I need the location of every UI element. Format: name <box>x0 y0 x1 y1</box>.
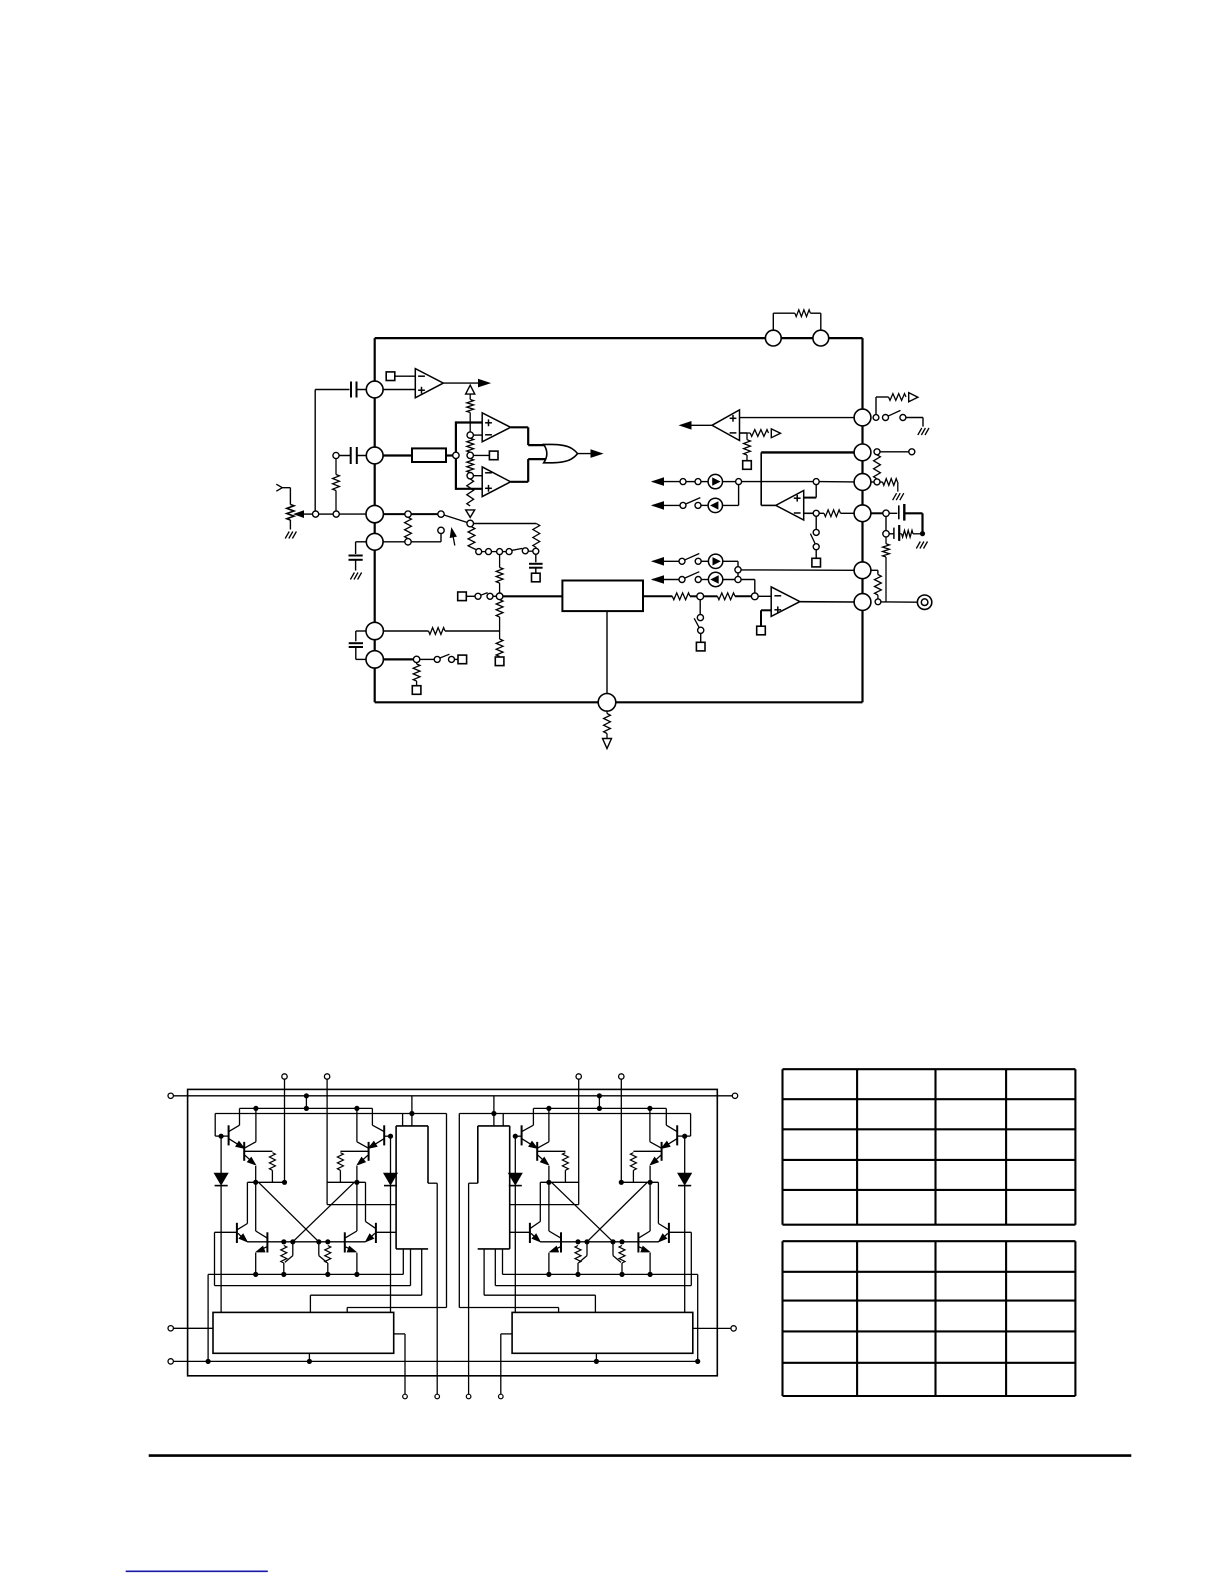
link drop to Q6 <box>246 1182 248 1223</box>
small open arrow right <box>771 429 780 438</box>
switch circle <box>475 593 481 599</box>
junction dot <box>920 531 925 536</box>
left rail terminal <box>168 1093 173 1098</box>
left IC pin 6 <box>366 651 383 668</box>
U3 output to OR gate <box>511 426 529 428</box>
audio output line <box>881 601 918 603</box>
diode D2 (right) <box>390 1136 392 1173</box>
pin R2 wire to U6 output <box>761 451 854 453</box>
transistor Q6 <box>236 1223 238 1243</box>
wire terminal b to driver block <box>510 1204 579 1206</box>
divider node circle b <box>467 452 473 458</box>
emitter bus <box>503 1273 698 1275</box>
heavy input bus of comparators <box>456 421 482 423</box>
wire terminal b to driver block <box>327 1204 396 1206</box>
terminal square osc in <box>458 592 467 601</box>
bus3 <box>484 1294 595 1296</box>
OR output arrow <box>578 453 598 455</box>
diode D1 (left) <box>684 1136 686 1173</box>
switch circle <box>487 593 493 599</box>
resistor left leg of coil <box>468 527 475 548</box>
switch blade <box>889 410 901 416</box>
series resistor 2 <box>717 593 735 600</box>
switch blade to VCO node <box>444 515 467 523</box>
bottom pin circle <box>598 694 616 712</box>
emitter resistor Rd <box>575 1246 581 1264</box>
rail line4 <box>459 1113 690 1115</box>
transistor Q4 <box>383 1125 385 1145</box>
bottom bus segment <box>208 1360 453 1362</box>
resistor bridging top pins <box>772 313 774 330</box>
resistor down from U2 - <box>746 433 748 440</box>
tuning pot / antenna input <box>276 484 290 491</box>
route from line4 to bias block <box>459 1307 558 1309</box>
emitter resistor Rc <box>281 1246 287 1264</box>
divider node circle c <box>467 473 473 479</box>
resistor Rb <box>537 1150 565 1152</box>
parallel lead <box>586 1242 588 1256</box>
left mid terminal <box>168 1326 173 1331</box>
wire pin5 row <box>383 630 428 632</box>
ceramic resonator box at pin 2 <box>383 454 412 456</box>
emitter bus <box>208 1273 403 1275</box>
pin R2 right branch <box>874 449 880 455</box>
cap in RC <box>893 528 895 539</box>
top terminal a <box>282 1074 287 1079</box>
transistor Q5 <box>266 1232 268 1252</box>
feed to driver block <box>409 1111 414 1116</box>
left multiplier cell <box>206 1074 453 1395</box>
pin function table (upper) <box>783 1068 1076 1070</box>
emitter link <box>621 1181 658 1183</box>
resistor below bottom pin <box>606 711 608 713</box>
row C node circle <box>735 567 741 573</box>
supply arrow (open triangle up) <box>466 385 475 394</box>
resistor right of VCO <box>533 524 540 548</box>
bottom terminal 3 <box>466 1394 471 1399</box>
bottom bus segment <box>453 1360 698 1362</box>
resistor osc node down <box>496 600 503 617</box>
equivalent circuit outer rectangle <box>188 1089 718 1375</box>
U6 + input wire <box>804 497 817 499</box>
wire from C1 down to input node <box>314 390 316 512</box>
node circle on comparator bus <box>453 452 459 458</box>
top terminal b <box>324 1074 329 1079</box>
node circle <box>333 511 339 517</box>
ground <box>893 493 897 500</box>
mute switch below U6 <box>815 516 817 529</box>
transistor Q7 <box>344 1232 346 1252</box>
switch blade <box>481 593 488 596</box>
transistor Q8 <box>375 1223 377 1243</box>
row A node circle <box>736 479 742 485</box>
footer link underline <box>126 1570 268 1572</box>
cross-couple diagonal 2 <box>293 1182 355 1242</box>
U5 output to pin R6 <box>800 601 854 603</box>
resistor to osc node <box>496 568 503 584</box>
right IC pin R6 <box>854 594 871 611</box>
emitter column Q3-Q7 <box>548 1166 550 1231</box>
wire to pin R5 <box>741 569 854 571</box>
divider node circle a <box>467 432 473 438</box>
emitter column Q2-Q5 <box>255 1166 257 1231</box>
block to bottom terminal wire <box>428 1182 437 1184</box>
switch blade row D <box>685 572 699 578</box>
base row of lower pairs <box>247 1241 365 1243</box>
ground <box>918 428 922 435</box>
current source CS-C <box>708 554 722 568</box>
pin 5-6 capacitor <box>356 630 366 632</box>
right multiplier cell (mirrored) <box>453 1074 700 1395</box>
collector rail line3 <box>240 1107 373 1109</box>
bias block ground stub <box>308 1353 310 1361</box>
current source row D <box>653 576 664 583</box>
current source row C <box>653 558 664 565</box>
link drop to Q6 <box>657 1182 659 1223</box>
wire <box>173 1360 208 1362</box>
U5 + input to square <box>761 609 771 611</box>
wire <box>693 1327 731 1329</box>
IC boundary rectangle (application circuit) <box>375 337 863 339</box>
rail line4 <box>215 1113 446 1115</box>
transistor Q1 <box>228 1125 230 1145</box>
resistor below pin6 node <box>416 663 418 664</box>
node circle rows C-D <box>735 576 741 582</box>
terminal square <box>696 642 705 651</box>
current source row A <box>653 478 664 485</box>
terminal square at A1 inverting input <box>386 372 395 381</box>
audio op-amp U5 <box>771 587 800 617</box>
current source CS-B <box>708 498 722 512</box>
bottom terminal 1 wire <box>394 1333 405 1335</box>
route from line4 to bias block <box>347 1307 446 1309</box>
node circle <box>313 511 319 517</box>
transistor Q2 <box>661 1142 663 1161</box>
wire <box>319 513 333 515</box>
pin 6 row switch to terminal <box>383 658 413 660</box>
right IC pin R1 <box>854 409 871 426</box>
driver block tall rectangle <box>396 1125 428 1127</box>
wire to pin 3 <box>339 513 366 515</box>
bias block wide rectangle <box>213 1312 394 1353</box>
bus risers from block <box>502 1249 504 1275</box>
parallel lead <box>612 1242 614 1256</box>
terminal square <box>458 655 467 664</box>
emitter column Q3-Q7 <box>356 1166 358 1231</box>
parallel lead <box>318 1242 320 1256</box>
bottom terminal 4 <box>499 1394 504 1399</box>
divider resistor 4 <box>467 479 474 506</box>
wire VCO node right <box>474 523 537 525</box>
bottom terminal 2 <box>435 1394 440 1399</box>
pin R4 deemphasis network <box>871 512 883 514</box>
transistor Q4 <box>521 1125 523 1145</box>
osc node circle <box>496 593 503 600</box>
transistor Q6 <box>668 1223 670 1243</box>
top pin T1 <box>765 330 781 346</box>
driver block tall rectangle <box>478 1125 510 1127</box>
U2 - feedback network <box>740 432 748 434</box>
top terminal b <box>576 1074 581 1079</box>
left IC pin 4 <box>366 533 383 550</box>
node circle <box>883 531 889 537</box>
terminal square <box>743 461 752 470</box>
transistor Q5 <box>637 1232 639 1252</box>
diode D1 (left) <box>220 1136 222 1173</box>
row A tap circle <box>813 479 819 485</box>
node circle on output line <box>875 599 881 605</box>
emitter link right <box>327 1181 365 1183</box>
feed to driver block <box>491 1111 496 1116</box>
bottom terminal 1 wire <box>501 1333 512 1335</box>
bus2 <box>215 1285 411 1287</box>
wire to U4 - input <box>473 475 482 477</box>
resistor Rb <box>340 1150 368 1152</box>
feedback resistor R2-R3 <box>874 455 881 479</box>
parallel lead <box>292 1242 294 1256</box>
divider resistor 3 <box>467 459 474 473</box>
pin3 row to band switch <box>383 513 405 515</box>
resistor in pin5 row <box>429 628 446 635</box>
transistor Q7 <box>560 1232 562 1252</box>
trimmer capacitor under coil right <box>535 554 537 562</box>
terminal square <box>412 686 421 695</box>
wire to U3 - input <box>473 434 482 436</box>
capacitor plates <box>898 505 900 519</box>
small open arrow right <box>909 393 918 402</box>
heavy wire osc node to IF block <box>503 595 563 597</box>
resistor down to audio out line <box>885 537 887 544</box>
bus3 <box>310 1294 421 1296</box>
emitter link <box>247 1181 284 1183</box>
bus2 <box>495 1285 691 1287</box>
top terminal a <box>619 1074 624 1079</box>
terminal square <box>812 558 821 567</box>
transistor Q2 <box>243 1142 245 1161</box>
ground <box>350 573 354 580</box>
wire coil center down <box>499 555 501 568</box>
right IC pin R3 <box>854 474 871 491</box>
resistor from C2 node down <box>335 459 337 475</box>
current source CS-A <box>708 474 722 488</box>
diode D2 (right) <box>514 1136 516 1173</box>
switch blade row B <box>686 498 700 504</box>
base row of lower pairs <box>540 1241 658 1243</box>
tuning coil chain <box>472 548 478 551</box>
cross-couple diagonal 2 <box>552 1182 614 1242</box>
wire row A to row B <box>738 485 740 506</box>
VCO node circle <box>467 520 474 527</box>
buffer branch above pin R1 <box>875 397 877 415</box>
resistor pin3-pin4 column <box>405 517 412 538</box>
wire pin1 to A1 + input <box>383 389 415 391</box>
resistor to terminal <box>496 639 503 657</box>
cross-couple diagonal 1 <box>259 1182 319 1242</box>
divider resistor 2 <box>467 438 474 452</box>
transistor Q1 <box>676 1125 678 1145</box>
IF/detector block rectangle <box>562 581 643 612</box>
pin4 row <box>383 541 405 543</box>
link drop to Q8 <box>365 1182 367 1221</box>
bias block ground stub <box>595 1353 597 1361</box>
resistor in RC <box>899 533 901 535</box>
footer rule <box>149 1454 1132 1457</box>
rail stub <box>597 1093 602 1098</box>
left IC pin 5 <box>366 622 383 639</box>
wire <box>173 1327 213 1329</box>
wiper arrow into pot <box>301 513 313 515</box>
left IC pin 2 <box>366 447 383 464</box>
transistor Q8 <box>529 1223 531 1243</box>
rail stub <box>304 1093 309 1098</box>
current source CS-D <box>708 572 722 586</box>
switch blade <box>440 654 449 658</box>
current source row B <box>653 502 664 509</box>
OR gate <box>544 444 578 462</box>
node circle at U6 - <box>813 510 819 516</box>
ground below pot <box>285 532 289 539</box>
left IC pin 3 <box>366 505 383 522</box>
arrow to ground (open triangle down) <box>603 739 612 749</box>
audio node circle 1 <box>697 593 704 600</box>
audio node circle 2 <box>751 593 758 600</box>
switch blade row C <box>685 554 699 560</box>
wire row D to audio node <box>754 580 756 593</box>
U4 output to OR gate <box>511 481 529 483</box>
terminal square at divider mid <box>473 454 489 456</box>
switch chain below audio node 1 <box>699 600 701 615</box>
resistor to pin R4 <box>819 512 824 514</box>
wire block to bottom pin <box>606 611 608 693</box>
terminal square <box>495 657 504 666</box>
right IC pin R5 <box>854 562 871 579</box>
op-amp A1 (RF amp) <box>415 369 443 398</box>
transistor Q3 <box>368 1142 370 1161</box>
cross-couple diagonal 1 <box>587 1182 647 1242</box>
left bottom terminal <box>168 1359 173 1364</box>
U6 - input wire <box>804 512 813 514</box>
audio path right of block <box>643 595 672 597</box>
capacitor pin4 to ground <box>356 541 367 543</box>
right IC pin R2 <box>854 444 871 461</box>
node circle at pin R3 <box>874 479 880 485</box>
U2 + input to pin R1 <box>740 417 855 419</box>
left IC pin 1 <box>366 381 383 398</box>
meter op-amp U2 (points left) <box>712 410 740 441</box>
resistor Ra <box>244 1150 272 1152</box>
bus risers from block <box>402 1249 404 1275</box>
pin R1 AGC switch network <box>873 415 879 421</box>
open terminal circle <box>909 449 915 455</box>
resistor Ra <box>633 1150 661 1152</box>
switch actuator arrow <box>452 532 455 546</box>
capacitor C2 at pin 2 <box>333 452 339 458</box>
arrow down to VCO node <box>466 510 475 518</box>
capacitor C1 at pin 1 <box>315 389 349 391</box>
right rail terminal <box>732 1093 737 1098</box>
right mid terminal <box>731 1326 736 1331</box>
transistor Q3 <box>536 1142 538 1161</box>
emitter column Q2-Q5 <box>649 1166 651 1231</box>
ground <box>916 542 920 549</box>
block to bottom terminal wire <box>469 1182 478 1184</box>
link drop to Q8 <box>539 1182 541 1221</box>
resistor from supply to comparator chain <box>469 394 471 399</box>
bottom terminal 1 <box>403 1394 408 1399</box>
bias block wide rectangle <box>512 1312 693 1353</box>
collector rail line3 <box>533 1107 666 1109</box>
comparator U3 (upper) <box>482 413 510 442</box>
feedback resistor pin R5 to R6 <box>871 569 878 571</box>
top pin T2 <box>813 330 829 346</box>
output jack symbol <box>917 595 931 609</box>
FM demod op-amp U6 (points left) <box>776 491 804 521</box>
A1 output arrow <box>443 382 485 384</box>
emitter resistor Rd <box>325 1246 331 1264</box>
U2 output arrow left <box>691 424 712 426</box>
terminal square <box>532 573 541 582</box>
emitter link right <box>540 1181 578 1183</box>
emitter resistor Rc <box>619 1246 625 1264</box>
right IC pin R4 <box>854 505 871 522</box>
pin function table (lower) <box>783 1240 1076 1242</box>
top rail with end terminals <box>173 1095 732 1097</box>
comparator U4 (lower) <box>482 467 510 497</box>
pin R3 resistor to ground <box>871 481 874 483</box>
